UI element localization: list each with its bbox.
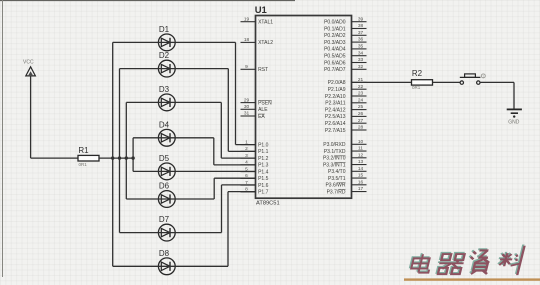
svg-text:28: 28 (358, 125, 364, 131)
svg-text:17: 17 (358, 186, 364, 192)
svg-text:P3.1/TXD: P3.1/TXD (324, 149, 346, 155)
svg-text:0R1: 0R1 (79, 162, 88, 167)
svg-text:18: 18 (244, 37, 250, 43)
svg-text:16: 16 (358, 179, 364, 185)
svg-text:AT89C51: AT89C51 (256, 201, 280, 207)
svg-text:P0.3/AD3: P0.3/AD3 (324, 40, 346, 46)
svg-text:R1: R1 (78, 146, 89, 155)
svg-text:13: 13 (358, 159, 364, 165)
svg-text:38: 38 (358, 23, 364, 29)
svg-text:27: 27 (358, 118, 364, 124)
svg-text:EA: EA (258, 114, 265, 120)
svg-text:ALE: ALE (258, 107, 268, 113)
svg-text:P2.6/A14: P2.6/A14 (325, 121, 346, 127)
svg-text:P3.2/INT0: P3.2/INT0 (323, 156, 346, 162)
svg-text:P3.7/RD: P3.7/RD (327, 189, 346, 195)
svg-text:P1.1: P1.1 (258, 149, 269, 155)
svg-text:R2: R2 (412, 69, 423, 78)
svg-text:P2.1/A9: P2.1/A9 (328, 87, 346, 93)
svg-text:31: 31 (244, 111, 250, 117)
svg-text:P3.5/T1: P3.5/T1 (328, 176, 346, 182)
svg-text:19: 19 (244, 16, 250, 22)
svg-text:U1: U1 (255, 5, 268, 16)
svg-text:P2.0/A8: P2.0/A8 (328, 80, 346, 86)
svg-text:1: 1 (482, 75, 484, 79)
svg-text:P0.5/AD5: P0.5/AD5 (324, 54, 346, 60)
svg-text:D4: D4 (159, 120, 170, 129)
svg-text:GND: GND (508, 120, 520, 126)
svg-text:P2.4/A12: P2.4/A12 (325, 107, 346, 113)
svg-text:29: 29 (244, 97, 250, 103)
svg-text:P0.4/AD4: P0.4/AD4 (324, 47, 346, 53)
svg-text:P1.3: P1.3 (258, 163, 269, 169)
svg-text:P2.7/A15: P2.7/A15 (325, 128, 346, 134)
svg-text:37: 37 (358, 30, 364, 36)
svg-text:P0.7/AD7: P0.7/AD7 (324, 67, 346, 73)
svg-text:10: 10 (358, 139, 364, 145)
svg-text:D6: D6 (159, 182, 170, 191)
svg-text:VCC: VCC (23, 60, 34, 66)
svg-text:11: 11 (358, 146, 363, 152)
svg-text:9: 9 (245, 64, 248, 70)
svg-text:P0.1/AD1: P0.1/AD1 (324, 26, 346, 32)
svg-text:P1.4: P1.4 (258, 169, 269, 175)
svg-text:P1.0: P1.0 (258, 142, 269, 148)
svg-text:P2.2/A10: P2.2/A10 (325, 94, 346, 100)
svg-text:26: 26 (358, 111, 364, 117)
svg-text:34: 34 (358, 50, 364, 56)
svg-text:XTAL1: XTAL1 (258, 20, 273, 26)
svg-text:32: 32 (358, 64, 364, 70)
svg-text:35: 35 (358, 44, 364, 50)
svg-text:P1.5: P1.5 (258, 176, 269, 182)
svg-text:30: 30 (244, 104, 250, 110)
svg-text:12: 12 (358, 152, 364, 158)
svg-text:D7: D7 (159, 215, 170, 224)
svg-text:P1.7: P1.7 (258, 190, 269, 196)
svg-text:22: 22 (358, 84, 364, 90)
svg-text:P3.4/T0: P3.4/T0 (328, 169, 346, 175)
svg-text:33: 33 (358, 57, 364, 63)
svg-text:24: 24 (358, 97, 364, 103)
svg-text:D8: D8 (159, 249, 170, 258)
svg-text:P2.5/A13: P2.5/A13 (325, 114, 346, 120)
svg-text:14: 14 (358, 166, 364, 172)
svg-text:36: 36 (358, 37, 364, 43)
svg-text:D5: D5 (159, 154, 170, 163)
svg-text:15: 15 (358, 173, 364, 179)
svg-text:P0.6/AD6: P0.6/AD6 (324, 60, 346, 66)
svg-text:P1.6: P1.6 (258, 183, 269, 189)
svg-text:P3.6/WR: P3.6/WR (325, 183, 345, 189)
svg-text:P3.3/INT1: P3.3/INT1 (323, 162, 346, 168)
svg-text:0R1: 0R1 (412, 85, 421, 90)
svg-text:25: 25 (358, 104, 364, 110)
svg-text:RST: RST (258, 67, 268, 73)
svg-text:P0.0/AD0: P0.0/AD0 (324, 20, 346, 26)
svg-text:23: 23 (358, 91, 364, 97)
svg-text:D1: D1 (159, 25, 170, 34)
svg-text:D2: D2 (159, 51, 170, 60)
svg-text:PSEN: PSEN (258, 100, 272, 106)
svg-text:D3: D3 (159, 85, 170, 94)
svg-text:39: 39 (358, 16, 364, 22)
svg-text:P1.2: P1.2 (258, 156, 269, 162)
svg-text:P0.2/AD2: P0.2/AD2 (324, 33, 346, 39)
svg-text:XTAL2: XTAL2 (258, 40, 273, 46)
svg-text:P2.3/A11: P2.3/A11 (325, 101, 345, 107)
svg-text:P3.0/RXD: P3.0/RXD (323, 142, 346, 148)
